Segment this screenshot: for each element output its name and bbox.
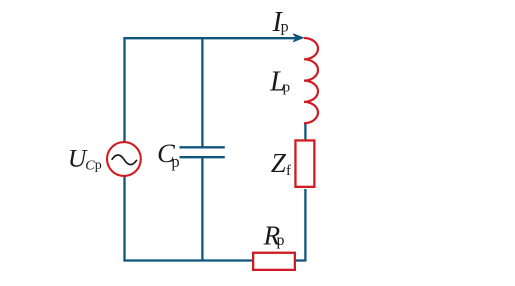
resistor Rp xyxy=(253,253,295,270)
current arrow Ip xyxy=(293,34,303,42)
wire: middle vertical above capacitor xyxy=(201,38,203,147)
svg-text:f: f xyxy=(286,163,291,179)
svg-text:C: C xyxy=(85,159,95,174)
svg-text:p: p xyxy=(283,80,291,96)
svg-text:p: p xyxy=(171,152,179,171)
wire: left vertical lower xyxy=(123,177,125,261)
source UCp circle xyxy=(107,142,141,176)
wire: right vertical between inductor and Zf xyxy=(304,123,306,140)
svg-text:Z: Z xyxy=(271,148,287,178)
wire: bottom horizontal left of Rp xyxy=(123,259,253,261)
wire: left vertical upper + top horizontal xyxy=(125,38,298,141)
source UCp sine xyxy=(112,155,137,165)
svg-text:p: p xyxy=(277,232,285,249)
impedance Zf xyxy=(295,140,314,186)
wire: middle vertical below capacitor xyxy=(201,157,203,260)
svg-text:p: p xyxy=(281,18,289,35)
wire: bottom horizontal right of Rp + right vertical up to Zf xyxy=(295,189,305,261)
capacitor Cp plates xyxy=(180,147,225,157)
inductor Lp xyxy=(304,38,318,123)
svg-text:p: p xyxy=(95,158,102,173)
